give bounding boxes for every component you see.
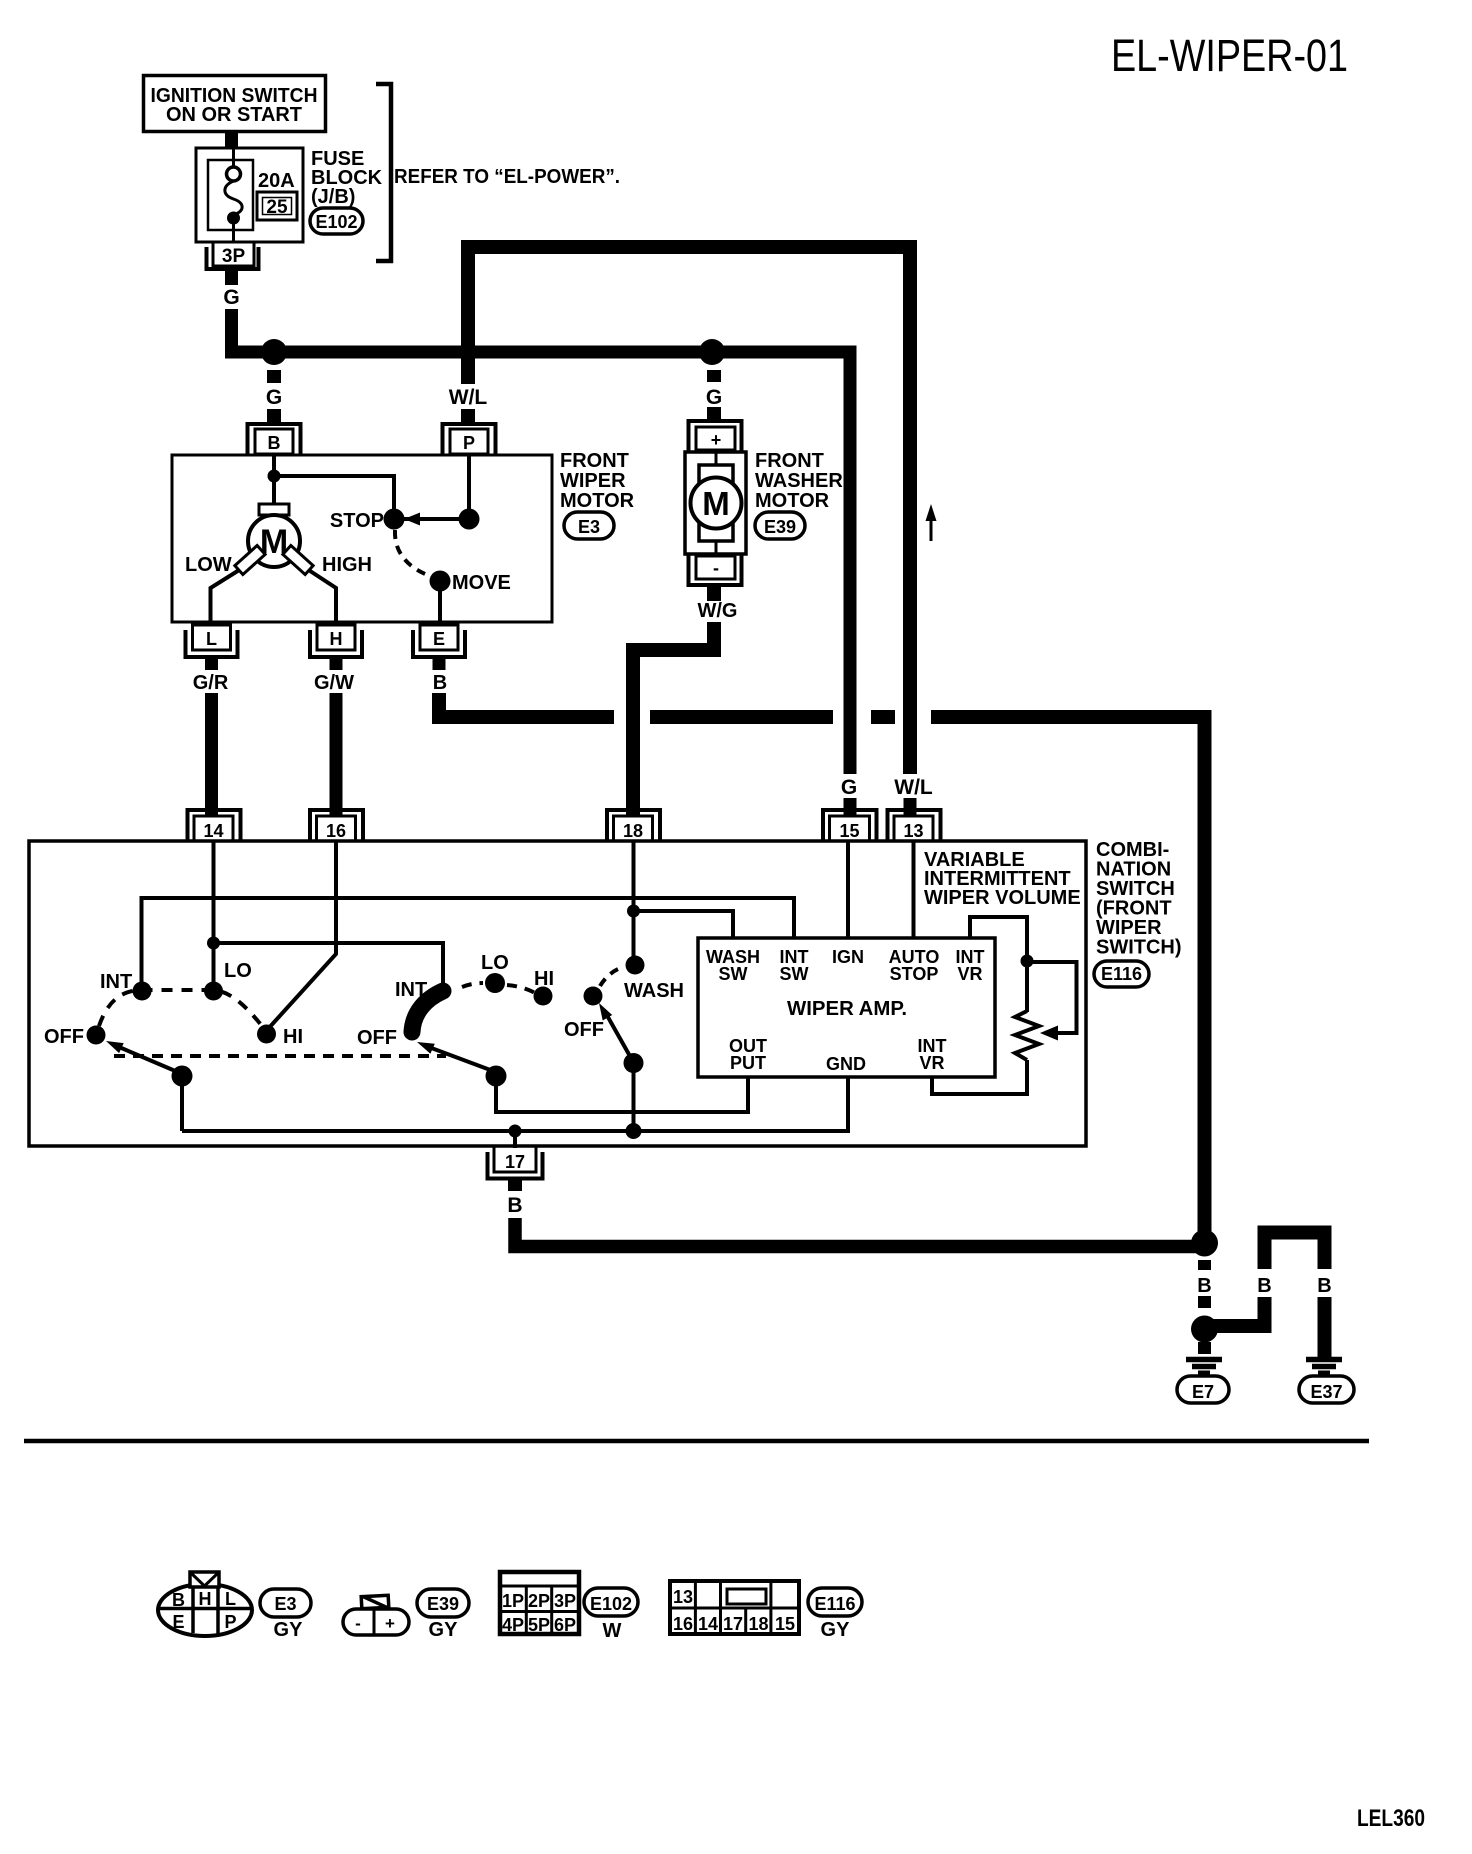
svg-text:G: G	[223, 286, 239, 309]
svg-text:GY: GY	[274, 1619, 304, 1641]
svg-text:STOP: STOP	[890, 964, 939, 984]
svg-text:G: G	[841, 776, 857, 799]
svg-text:17: 17	[505, 1152, 525, 1172]
svg-text:WIPER AMP.: WIPER AMP.	[787, 998, 907, 1020]
svg-text:15: 15	[839, 821, 859, 841]
svg-text:EL-WIPER-01: EL-WIPER-01	[1111, 30, 1348, 81]
svg-text:E116: E116	[1101, 964, 1142, 984]
svg-text:3P: 3P	[554, 1591, 576, 1611]
svg-text:B: B	[1317, 1275, 1331, 1297]
svg-text:3P: 3P	[222, 246, 246, 267]
svg-text:L: L	[206, 629, 217, 649]
svg-text:INT: INT	[100, 971, 132, 993]
svg-text:LEL360: LEL360	[1357, 1805, 1425, 1832]
svg-text:4P: 4P	[502, 1615, 524, 1635]
svg-text:ON OR START: ON OR START	[166, 104, 302, 126]
svg-text:1P: 1P	[502, 1591, 524, 1611]
svg-text:FRONT: FRONT	[755, 450, 824, 472]
svg-text:W: W	[603, 1620, 622, 1642]
svg-text:E3: E3	[578, 517, 600, 537]
svg-text:14: 14	[203, 821, 223, 841]
svg-text:B: B	[1197, 1275, 1211, 1297]
svg-text:B: B	[1257, 1275, 1271, 1297]
svg-text:OFF: OFF	[357, 1027, 397, 1049]
svg-text:REFER TO “EL-POWER”.: REFER TO “EL-POWER”.	[394, 166, 620, 188]
svg-text:E: E	[433, 629, 445, 649]
svg-text:14: 14	[698, 1614, 718, 1634]
svg-text:G/W: G/W	[314, 672, 354, 694]
svg-text:HIGH: HIGH	[322, 554, 372, 576]
svg-text:E39: E39	[427, 1594, 459, 1614]
svg-text:M: M	[702, 485, 730, 522]
svg-text:+: +	[385, 1614, 395, 1633]
svg-text:WIPER: WIPER	[560, 470, 626, 492]
svg-text:15: 15	[775, 1614, 795, 1634]
svg-text:E116: E116	[814, 1594, 855, 1614]
svg-text:IGN: IGN	[832, 947, 864, 967]
svg-text:M: M	[260, 523, 288, 561]
svg-text:16: 16	[673, 1614, 693, 1634]
svg-text:P: P	[224, 1612, 236, 1632]
svg-text:HI: HI	[534, 968, 554, 990]
svg-text:W/G: W/G	[698, 600, 738, 622]
svg-text:E3: E3	[274, 1594, 296, 1614]
svg-text:LOW: LOW	[185, 554, 232, 576]
svg-text:SW: SW	[780, 964, 809, 984]
svg-text:H: H	[199, 1589, 212, 1609]
svg-text:W/L: W/L	[449, 386, 488, 409]
svg-text:MOTOR: MOTOR	[755, 490, 830, 512]
svg-text:SW: SW	[719, 964, 748, 984]
svg-text:E7: E7	[1192, 1382, 1214, 1402]
svg-text:E39: E39	[764, 517, 796, 537]
svg-text:VR: VR	[957, 964, 982, 984]
svg-text:GY: GY	[821, 1619, 851, 1641]
svg-text:B: B	[268, 433, 281, 453]
svg-text:LO: LO	[481, 952, 509, 974]
svg-text:MOTOR: MOTOR	[560, 490, 635, 512]
svg-text:WIPER VOLUME: WIPER VOLUME	[924, 887, 1081, 909]
svg-text:+: +	[711, 430, 722, 450]
svg-text:13: 13	[673, 1587, 693, 1607]
svg-text:E37: E37	[1310, 1382, 1342, 1402]
svg-text:17: 17	[723, 1614, 743, 1634]
svg-text:G/R: G/R	[193, 672, 229, 694]
svg-text:SWITCH): SWITCH)	[1096, 937, 1182, 959]
svg-text:GY: GY	[429, 1619, 459, 1641]
svg-text:E102: E102	[315, 212, 357, 232]
svg-text:B: B	[172, 1590, 185, 1610]
svg-text:G: G	[266, 386, 282, 409]
svg-text:STOP: STOP	[330, 510, 384, 532]
svg-text:-: -	[355, 1614, 361, 1633]
svg-text:20A: 20A	[258, 170, 295, 192]
svg-text:18: 18	[748, 1614, 768, 1634]
svg-text:GND: GND	[826, 1054, 866, 1074]
svg-text:B: B	[507, 1194, 522, 1217]
svg-text:L: L	[225, 1589, 236, 1609]
svg-text:B: B	[433, 672, 447, 694]
svg-text:6P: 6P	[554, 1615, 576, 1635]
svg-text:18: 18	[623, 821, 643, 841]
svg-text:16: 16	[326, 821, 346, 841]
svg-text:PUT: PUT	[730, 1053, 766, 1073]
svg-text:P: P	[463, 433, 475, 453]
svg-text:WASHER: WASHER	[755, 470, 843, 492]
svg-text:W/L: W/L	[894, 776, 933, 799]
svg-text:WASH: WASH	[624, 980, 684, 1002]
svg-text:INT: INT	[395, 979, 427, 1001]
svg-text:25: 25	[266, 197, 288, 218]
svg-text:(J/B): (J/B)	[311, 186, 355, 208]
svg-text:OFF: OFF	[44, 1026, 84, 1048]
svg-text:OFF: OFF	[564, 1019, 604, 1041]
svg-text:H: H	[330, 629, 343, 649]
svg-text:VR: VR	[919, 1053, 944, 1073]
svg-text:FRONT: FRONT	[560, 450, 629, 472]
svg-text:LO: LO	[224, 960, 252, 982]
svg-text:MOVE: MOVE	[452, 572, 511, 594]
svg-text:-: -	[713, 558, 719, 578]
svg-text:2P: 2P	[528, 1591, 550, 1611]
svg-text:E: E	[172, 1612, 184, 1632]
svg-text:13: 13	[903, 821, 923, 841]
svg-text:HI: HI	[283, 1026, 303, 1048]
svg-text:5P: 5P	[528, 1615, 550, 1635]
svg-text:G: G	[706, 386, 722, 409]
svg-text:E102: E102	[590, 1594, 632, 1614]
